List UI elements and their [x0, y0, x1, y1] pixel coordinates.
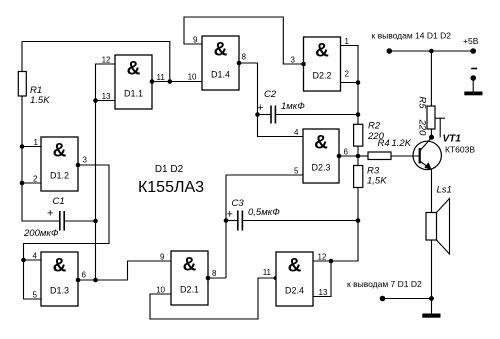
wire R5 side bracket [435, 117, 445, 119]
capacitor C1 [59, 211, 61, 231]
transistor emitter arrow [424, 162, 432, 170]
wire R4 left [358, 155, 368, 157]
node C3 left junction [224, 218, 229, 223]
svg-text:1,5K: 1,5K [367, 176, 387, 187]
svg-text:1: 1 [34, 138, 39, 147]
gate D2.3 labels [294, 128, 348, 176]
svg-text:4: 4 [33, 251, 38, 260]
svg-text:8: 8 [212, 269, 217, 278]
wire emitter down to speaker [431, 170, 433, 213]
svg-text:10: 10 [188, 72, 197, 81]
wire D1.4 pin9 bridge to D2.2 pin3 [184, 17, 304, 64]
node C2-R2 junction [356, 112, 361, 117]
wire D2.2 pin1 to pin2 tie [341, 46, 359, 83]
node ground rail terminal [380, 296, 386, 302]
svg-text:13: 13 [319, 288, 328, 297]
wire pin2 down to C2 node [357, 83, 359, 115]
capacitor C3 [237, 211, 239, 231]
node D2.3 pin6 output dot [337, 154, 342, 159]
svg-text:+: + [47, 208, 53, 220]
wire C3 left [226, 220, 238, 222]
svg-text:0,5мкФ: 0,5мкФ [248, 207, 280, 218]
wire D1.1 output to D1.4 pin10 [152, 81, 202, 83]
node pin1 junction [20, 144, 25, 149]
svg-text:КТ603В: КТ603В [445, 145, 475, 155]
svg-text:D1.3: D1.3 [50, 286, 69, 296]
wire left vertical R1 bottom to C1 left [22, 96, 59, 221]
node pin2 junction [20, 181, 25, 186]
ground [431, 299, 433, 314]
wire C3 right to R3 bottom [242, 220, 358, 222]
transistor base bar [419, 148, 421, 164]
svg-text:C3: C3 [232, 198, 245, 209]
wire down to D2.4 pin12 [331, 221, 358, 262]
node D1.3 pin6 output dot [76, 278, 81, 283]
gate D1.2 labels [33, 138, 87, 184]
gate D2.4 [276, 252, 313, 306]
svg-text:&: & [127, 59, 141, 80]
svg-text:11: 11 [157, 73, 166, 82]
transistor collector lead [420, 138, 431, 151]
wire C2 right to R2 top node [275, 114, 358, 116]
gate D1.3 labels [33, 251, 87, 299]
node +5V terminal [470, 48, 476, 54]
svg-text:&: & [288, 256, 302, 277]
svg-text:&: & [314, 133, 328, 154]
svg-text:11: 11 [263, 268, 272, 277]
wire R1 top vertical [21, 42, 23, 72]
wire D1.3 output to D2.1 pin9 [78, 261, 171, 280]
wire C2 node down to D2.3 pin4 [258, 115, 304, 137]
node base junction [356, 154, 361, 159]
svg-text:D2.3: D2.3 [311, 163, 330, 173]
svg-text:&: & [315, 41, 329, 62]
svg-text:Ls1: Ls1 [437, 185, 452, 196]
node collector junction [429, 135, 434, 140]
wire node6 to R3 top [357, 156, 359, 166]
transistor VT1 [413, 141, 441, 169]
node D2.4 pin11 input dot [274, 276, 279, 281]
resistor R5 [427, 106, 435, 129]
svg-text:D1 D2: D1 D2 [155, 164, 184, 175]
wire D2.3 output [339, 155, 368, 157]
wire pin1 stub D1.2 [22, 146, 41, 148]
svg-text:C2: C2 [264, 89, 277, 100]
wire R3 bottom to C3 line [357, 188, 359, 221]
svg-text:12: 12 [318, 253, 327, 262]
wire C2 left [258, 114, 272, 116]
svg-text:4: 4 [294, 128, 299, 137]
wire speaker down to ground rail [431, 240, 433, 299]
svg-text:1мкФ: 1мкФ [281, 101, 305, 112]
transistor emitter lead [420, 162, 431, 170]
svg-text:6: 6 [82, 271, 87, 280]
svg-text:2: 2 [33, 174, 38, 183]
wire D1.3 pin4 stub [24, 259, 42, 261]
svg-text:к выводам 14 D1 D2: к выводам 14 D1 D2 [372, 31, 452, 41]
svg-text:D1.1: D1.1 [124, 89, 143, 99]
speaker Ls1 [426, 213, 437, 241]
wire R5 bracket stem [439, 118, 441, 137]
node D2.2 pin2 junction [356, 80, 361, 85]
wire R2 bottom to node6 [357, 146, 359, 156]
wire D2.1 pin10 loop to D2.4 pin11 [150, 278, 276, 319]
node ground junction [429, 296, 434, 301]
wire base from R4 [391, 155, 420, 157]
svg-text:+5В: +5В [463, 36, 479, 46]
svg-text:D2.1: D2.1 [180, 285, 199, 295]
gate D1.2 [41, 137, 78, 191]
node D1.1 pin11 output dot [150, 79, 155, 84]
node D2.1 pin8 output dot [206, 276, 211, 281]
node R3-C3 junction [356, 218, 361, 223]
node D1.2 pin3 output dot [76, 163, 81, 168]
node C1 right junction [93, 219, 98, 224]
svg-text:&: & [214, 40, 228, 61]
capacitor C2 [270, 106, 272, 124]
svg-text:9: 9 [193, 35, 198, 44]
svg-text:2: 2 [345, 70, 350, 79]
gate D1.1 [115, 55, 152, 109]
wire ground rail [383, 298, 432, 300]
svg-text:1.2K: 1.2K [392, 138, 412, 149]
wire top feedback from R1 top to D1.1 output [22, 42, 170, 82]
node D2.4 pin12 junction [329, 259, 334, 264]
node pin13 junction [93, 98, 98, 103]
svg-text:1: 1 [345, 37, 350, 46]
wire D1.2 output to D1.3 inputs [24, 165, 110, 299]
gate D2.2 labels [291, 37, 350, 81]
svg-text:8: 8 [242, 53, 247, 62]
gate D1.3 [41, 252, 78, 306]
svg-text:12: 12 [102, 55, 111, 64]
svg-text:к выводам 7 D1 D2: к выводам 7 D1 D2 [347, 279, 422, 289]
svg-text:D2.4: D2.4 [285, 286, 304, 296]
node D2.2 pin3 input dot [301, 62, 306, 67]
svg-text:&: & [183, 255, 197, 276]
wire pin2 stub D1.2 [22, 182, 41, 184]
svg-text:10: 10 [156, 285, 165, 294]
node C2 left junction [255, 112, 260, 117]
wire rail down to R5 [430, 51, 432, 106]
svg-text:220: 220 [417, 119, 428, 137]
gate D2.1 labels [156, 252, 217, 294]
wire D2.2 pin2 stub [341, 82, 359, 84]
node feedback junction [168, 79, 173, 84]
svg-text:R5: R5 [417, 96, 428, 109]
svg-text:D1.4: D1.4 [211, 70, 230, 80]
wire vertical net D1.1 inputs to C1 to D1.3 output [96, 64, 116, 280]
power minus terminal [471, 68, 477, 70]
gate D1.4 [202, 36, 239, 90]
svg-text:5: 5 [33, 290, 38, 299]
node D1.3 output vertical junction [93, 278, 98, 283]
svg-text:D2.2: D2.2 [312, 71, 331, 81]
svg-text:+: + [227, 209, 233, 221]
node rail left terminal [387, 48, 393, 54]
svg-text:R2: R2 [368, 121, 381, 132]
wire D2.3 pin5 to C3 vertical [226, 175, 303, 278]
svg-text:6: 6 [344, 147, 349, 156]
node D1.3 pin4 junction [21, 258, 26, 263]
svg-text:C1: C1 [53, 196, 65, 207]
svg-text:5: 5 [294, 166, 299, 175]
wire R2 top stub [357, 115, 359, 125]
wire C1 right to vertical [64, 220, 95, 222]
gate D1.4 labels [188, 35, 247, 81]
svg-text:3: 3 [291, 55, 296, 64]
wire D1.4 output down to C2 [239, 63, 258, 115]
gate D1.1 labels [102, 55, 166, 101]
node rail R5 junction [429, 49, 434, 54]
wire R5 bottom to collector [430, 129, 432, 137]
gate D2.2 [304, 37, 341, 91]
resistor R1 [18, 72, 26, 97]
wire pin12 stub [313, 260, 331, 262]
wire pin13 stub D1.1 [96, 100, 116, 102]
node D1.4 pin8 output dot [237, 61, 242, 66]
svg-text:9: 9 [160, 252, 165, 261]
resistor R3 [354, 166, 363, 188]
svg-text:1.5K: 1.5K [30, 95, 50, 106]
resistor R4 [368, 152, 391, 160]
svg-text:200мкФ: 200мкФ [23, 228, 59, 239]
gate D2.3 [303, 129, 339, 183]
svg-text:13: 13 [102, 92, 111, 101]
wire +5V rail [389, 50, 473, 52]
svg-text:+: + [257, 102, 263, 114]
gate D2.4 labels [263, 253, 328, 297]
svg-text:&: & [53, 256, 67, 277]
svg-text:3: 3 [83, 156, 88, 165]
resistor R2 [354, 124, 363, 146]
svg-text:R4: R4 [378, 138, 390, 149]
svg-text:D1.2: D1.2 [50, 171, 69, 181]
gate D2.1 [171, 251, 208, 305]
svg-text:&: & [53, 141, 67, 162]
wire pin12 to pin13 tie [313, 261, 331, 297]
wire D2.1 output to C3 vertical [208, 277, 226, 279]
svg-text:VT1: VT1 [443, 134, 462, 145]
svg-text:К155ЛА3: К155ЛА3 [138, 179, 204, 196]
